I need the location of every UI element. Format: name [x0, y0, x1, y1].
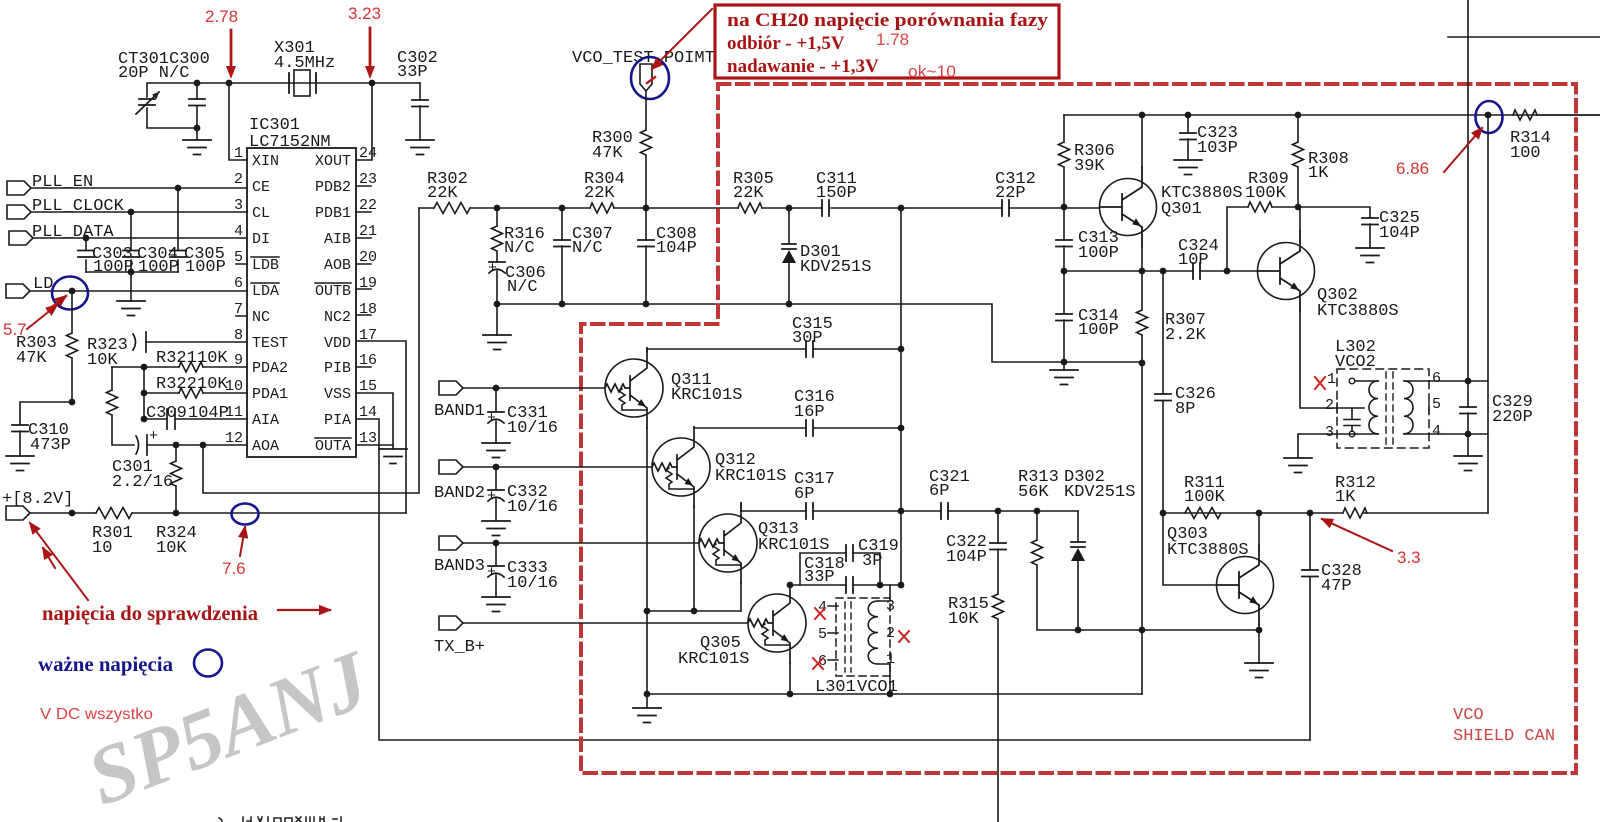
resistor R314	[1510, 110, 1600, 163]
wire Q311 collector to C315	[646, 348, 648, 351]
svg-text:CL: CL	[252, 205, 270, 222]
resistor R311	[1184, 474, 1226, 519]
resistor R323 body	[107, 367, 135, 445]
svg-text:+[8.2V]: +[8.2V]	[2, 490, 73, 509]
wire VCO feedback bus	[900, 208, 902, 585]
svg-text:24: 24	[359, 145, 377, 162]
capacitor C332 polarized	[487, 467, 558, 521]
svg-text:KRC101S: KRC101S	[678, 650, 749, 669]
capacitor C309	[144, 404, 247, 429]
svg-text:KRC101S: KRC101S	[758, 536, 829, 555]
svg-text:7.6: 7.6	[222, 559, 246, 578]
junction node C333 tap	[493, 540, 500, 547]
junction node XIN riser	[226, 80, 233, 87]
junction node R313 top	[1034, 508, 1041, 515]
svg-text:100: 100	[1510, 144, 1541, 163]
svg-text:100P: 100P	[1078, 321, 1119, 340]
junction node C309/AIA	[141, 416, 148, 423]
transistor Q313 KRC101S	[699, 503, 829, 583]
junction node at C300 bottom	[194, 125, 201, 132]
junction node C329 bottom	[1465, 431, 1472, 438]
red arrow from note box to test point	[652, 9, 712, 69]
pin numbers right	[359, 145, 377, 447]
junction node R324 bottom	[173, 510, 180, 517]
capacitor C319 parallel	[800, 537, 899, 585]
svg-text:KDV251S: KDV251S	[1064, 483, 1135, 502]
capacitor C318	[790, 555, 901, 593]
resistor R323	[87, 336, 128, 370]
capacitor C303	[78, 238, 134, 277]
svg-text:KTC3880S: KTC3880S	[1167, 541, 1249, 560]
svg-text:N/C: N/C	[572, 239, 603, 258]
wire Q313 collector to C317	[740, 503, 742, 511]
svg-text:10K: 10K	[197, 375, 228, 394]
transformer L302 VCO2	[1325, 338, 1441, 448]
wire VDD pin17 to supply rail	[356, 341, 406, 513]
svg-text:22K: 22K	[584, 184, 615, 203]
capacitor C313	[1056, 207, 1119, 271]
svg-text:20P N/C: 20P N/C	[118, 64, 189, 83]
capacitor C302	[397, 49, 438, 140]
wire Q302 collector riser	[1299, 207, 1301, 231]
junction nodes emitter row	[1061, 268, 1068, 275]
ground below C302	[406, 140, 434, 155]
capacitor C325	[1298, 207, 1420, 248]
ground at pin13/15	[379, 449, 407, 464]
junction node C316 bus	[898, 425, 905, 432]
junction nodes emitter bus	[644, 608, 651, 615]
svg-text:23: 23	[359, 171, 377, 188]
wire varactor bias column	[1141, 363, 1143, 694]
capacitor C304	[123, 212, 179, 277]
wire BAND1 to Q311 base	[463, 387, 605, 389]
resistor R307	[1137, 271, 1207, 363]
varactor diode D301	[782, 208, 871, 304]
junction node on CE wire	[175, 185, 182, 192]
wire Q305 collector riser	[789, 583, 791, 585]
capacitor C328	[1302, 513, 1362, 740]
svg-text:104P: 104P	[188, 404, 229, 423]
crystal X301	[274, 39, 335, 96]
legend wazne napiecia	[38, 650, 222, 677]
wire Q312 emitter down	[693, 507, 695, 611]
junction node D301 bottom	[786, 301, 793, 308]
svg-text:NC2: NC2	[324, 309, 351, 326]
junction node at C300 top	[194, 80, 201, 87]
wire lower rail to emitter column	[497, 304, 1142, 362]
legend napiecia do sprawdzenia	[42, 601, 330, 625]
red annotation 2.78 with arrow	[205, 7, 238, 79]
wire Q301 emitter riser	[1141, 247, 1143, 271]
junction node R303 bottom on rail	[69, 510, 76, 517]
wire Q302 emitter to L302 pin2	[1300, 311, 1364, 408]
blue circle marker 7.6 node	[232, 504, 259, 525]
red annotation 6.86 with arrow	[1396, 128, 1482, 178]
resistor R316 N/C	[492, 208, 545, 258]
svg-text:2.2/16: 2.2/16	[112, 473, 173, 492]
transistor Q303 KTC3880S	[1167, 525, 1274, 625]
svg-text:3: 3	[1325, 424, 1334, 441]
transistor Q302 KTC3880S	[1258, 231, 1399, 321]
svg-text:PLL_CLOCK: PLL_CLOCK	[32, 197, 125, 216]
svg-text:+: +	[488, 260, 497, 277]
wire Q301 collector riser	[1141, 115, 1143, 167]
svg-text:2: 2	[234, 171, 243, 188]
junction node C317 bus	[898, 508, 905, 515]
svg-text:V DC wszystko: V DC wszystko	[40, 706, 153, 723]
svg-text:100P: 100P	[93, 258, 134, 277]
wire RF output column	[1487, 115, 1489, 513]
svg-text:PDA2: PDA2	[252, 360, 288, 377]
capacitor on TEST line	[133, 332, 247, 352]
svg-text:47K: 47K	[592, 144, 623, 163]
ground below L302 pin3	[1284, 458, 1312, 473]
svg-text:10K: 10K	[156, 539, 187, 558]
red arrow inside LD circle	[48, 296, 66, 310]
capacitor C331 polarized	[487, 388, 558, 443]
svg-text:22: 22	[359, 197, 377, 214]
wire varactor control rail	[419, 207, 1099, 209]
capacitor C311	[816, 170, 857, 216]
connector BAND2	[434, 460, 485, 503]
svg-text:39K: 39K	[1074, 157, 1105, 176]
svg-text:47P: 47P	[1321, 577, 1352, 596]
junction node Q301 base	[1061, 204, 1068, 211]
test point VCO_TEST_POIMT	[572, 49, 715, 91]
capacitor C312	[995, 170, 1036, 216]
junction node Q302 collector	[1295, 204, 1302, 211]
connector LD	[6, 275, 53, 298]
svg-text:104P: 104P	[946, 548, 987, 567]
wire emitter common bus	[647, 610, 741, 612]
svg-text:+: +	[149, 428, 158, 445]
red arrows pointing to +8.2V connector	[30, 523, 88, 600]
junction node R308 top	[1295, 112, 1302, 119]
svg-text:10/16: 10/16	[507, 574, 558, 593]
blue circle marker test point	[631, 57, 669, 99]
pin names right column	[315, 153, 351, 455]
resistor R321	[112, 349, 247, 372]
junction node bias column	[1139, 627, 1146, 634]
svg-text:103P: 103P	[1197, 139, 1238, 158]
svg-text:22P: 22P	[995, 184, 1026, 203]
svg-text:100P: 100P	[185, 258, 226, 277]
capacitor C333 polarized	[487, 543, 558, 597]
svg-text:2: 2	[1325, 397, 1334, 414]
resistor R304	[584, 170, 625, 213]
svg-text:PIB: PIB	[324, 360, 351, 377]
wire LD to pin6 LDA	[30, 290, 247, 292]
capacitor C310	[12, 402, 72, 456]
svg-text:ok~10: ok~10	[908, 62, 956, 81]
red note box	[715, 5, 1059, 81]
svg-text:+: +	[487, 410, 496, 427]
svg-text:1K: 1K	[1308, 164, 1329, 183]
svg-text:22K: 22K	[733, 184, 764, 203]
wire Q313 emitter to common	[740, 583, 742, 611]
junction nodes lower rail	[494, 301, 501, 308]
svg-text:220P: 220P	[1492, 408, 1533, 427]
capacitor C321	[901, 468, 998, 519]
resistor R322	[144, 375, 247, 398]
svg-text:22K: 22K	[427, 184, 458, 203]
resistor R300	[592, 91, 652, 208]
svg-text:473P: 473P	[30, 436, 71, 455]
wire PLL_DATA to pin4 DI	[33, 237, 247, 239]
svg-text:5: 5	[818, 626, 827, 643]
svg-text:VSS: VSS	[324, 386, 351, 403]
svg-text:TEST: TEST	[252, 335, 288, 352]
junction nodes on R32x column	[141, 364, 148, 371]
connector BAND3	[434, 536, 485, 576]
svg-text:KDV251S: KDV251S	[800, 258, 871, 277]
junction nodes on control rail	[494, 205, 501, 212]
svg-text:napięcia do sprawdzenia: napięcia do sprawdzenia	[42, 601, 258, 625]
junction node on DI wire	[83, 235, 90, 242]
svg-text:N/C: N/C	[507, 278, 538, 297]
svg-text:100K: 100K	[1245, 184, 1287, 203]
svg-text:19: 19	[359, 275, 377, 292]
svg-text:3: 3	[886, 598, 895, 615]
junction node Q303 collector	[1256, 510, 1263, 517]
junction node D302 bottom	[1075, 627, 1082, 634]
svg-text:10/16: 10/16	[507, 498, 558, 517]
junction node C332 tap	[493, 464, 500, 471]
svg-text:3P: 3P	[862, 552, 882, 571]
svg-text:VDD: VDD	[324, 335, 351, 352]
junction node C318 bus	[898, 582, 905, 589]
junction node C323 top	[1185, 112, 1192, 119]
resistor R302	[427, 170, 470, 214]
resistor R309	[1227, 170, 1298, 271]
svg-text:BAND1: BAND1	[434, 402, 485, 421]
wire PLL_EN to pin2 CE	[31, 187, 247, 189]
svg-text:ważne napięcia: ważne napięcia	[38, 652, 173, 676]
svg-text:6.86: 6.86	[1396, 159, 1429, 178]
junction node C328 top	[1307, 510, 1314, 517]
varactor diode D302	[1064, 468, 1135, 630]
resistor R308	[1293, 115, 1349, 207]
svg-text:BAND2: BAND2	[434, 484, 485, 503]
ground below C325	[1356, 248, 1384, 263]
svg-text:16P: 16P	[794, 403, 825, 422]
svg-text:SHIELD CAN: SHIELD CAN	[1453, 727, 1555, 746]
junction node C331 tap	[493, 385, 500, 392]
svg-text:VCO2: VCO2	[1335, 353, 1376, 372]
junction node R307 bottom	[1139, 360, 1146, 367]
transformer L301 VCO1	[815, 585, 898, 697]
IC U301 LC7152NM body	[247, 116, 356, 457]
red annotation 3.3 with arrow	[1322, 519, 1421, 567]
capacitor C326	[1155, 271, 1216, 513]
connector PLL_DATA	[9, 223, 114, 245]
svg-text:odbiór - +1,5V: odbiór - +1,5V	[727, 33, 845, 54]
wire OUTA pin13 to ground	[356, 444, 393, 446]
label VCO SHIELD CAN	[1453, 706, 1555, 746]
svg-text:LC7152NM: LC7152NM	[249, 133, 331, 152]
svg-text:56K: 56K	[1018, 483, 1049, 502]
red X marks on L301	[813, 608, 909, 669]
svg-text:1: 1	[1327, 371, 1336, 388]
junction node LD	[69, 288, 76, 295]
resistor R301	[92, 508, 133, 559]
svg-text:PLL_EN: PLL_EN	[32, 173, 93, 192]
blue circle marker 6.86 node	[1476, 101, 1503, 133]
capacitor C322	[946, 511, 1006, 594]
junction node C319 right	[877, 582, 884, 589]
capacitor C306 N/C polarized	[488, 252, 546, 304]
svg-text:AOA: AOA	[252, 438, 279, 455]
svg-text:1: 1	[886, 651, 895, 668]
svg-text:10P: 10P	[1178, 251, 1209, 270]
capacitor C317	[741, 470, 901, 519]
ground symbol on bus	[633, 694, 661, 723]
svg-text:LDA: LDA	[252, 283, 279, 300]
capacitor C323	[1180, 115, 1238, 160]
wire L302 pin4 row	[1429, 433, 1488, 435]
cropped text fragments bottom	[219, 817, 341, 822]
pin5 LDB stub	[236, 264, 247, 316]
wire R32x column	[143, 367, 145, 419]
svg-text:104P: 104P	[656, 239, 697, 258]
svg-text:KTC3880S: KTC3880S	[1317, 302, 1399, 321]
wire top edge cropped lines	[1448, 0, 1600, 381]
connector PLL_EN	[7, 173, 93, 195]
junction node C315 bus	[898, 346, 905, 353]
svg-text:4.5MHz: 4.5MHz	[274, 54, 335, 73]
capacitor C324	[1178, 237, 1219, 279]
ground below C314	[1050, 362, 1078, 385]
svg-text:XIN: XIN	[252, 153, 279, 170]
ground below R316 column	[483, 304, 511, 350]
capacitor C305	[170, 188, 226, 277]
transistor Q301 KTC3880S	[1100, 167, 1243, 247]
svg-text:104P: 104P	[1379, 224, 1420, 243]
junction node collector rail	[1139, 112, 1146, 119]
svg-text:21: 21	[359, 223, 377, 240]
red X mark on L302 pin1	[1315, 377, 1325, 389]
blue circle marker at LD node	[52, 277, 88, 310]
wire cap bus to ground	[130, 272, 132, 301]
svg-text:TX_B+: TX_B+	[434, 638, 485, 657]
svg-text:10K: 10K	[948, 610, 979, 629]
svg-text:2.78: 2.78	[205, 7, 238, 26]
svg-text:3.23: 3.23	[348, 4, 381, 23]
wire VSS pin15 to ground	[356, 393, 393, 449]
svg-text:VCO: VCO	[1453, 706, 1484, 725]
svg-text:5: 5	[1432, 396, 1441, 413]
capacitor C314	[1056, 271, 1119, 362]
IC pin stubs right side	[356, 186, 371, 367]
svg-text:CE: CE	[252, 179, 270, 196]
wire PLL_CLOCK to pin3 CL	[31, 211, 247, 213]
connector +[8.2V]	[2, 490, 73, 520]
wire BAND3 to Q313 base	[463, 542, 699, 544]
wire Q303 row	[1163, 512, 1488, 514]
svg-text:nadawanie - +1,3V: nadawanie - +1,3V	[727, 56, 879, 77]
transistor Q311 KRC101S	[605, 348, 742, 428]
svg-text:PDB1: PDB1	[315, 205, 351, 222]
svg-text:100P: 100P	[1078, 244, 1119, 263]
trimmer capacitor CT301	[118, 50, 210, 114]
junction node XOUT riser	[369, 80, 376, 87]
transistor Q312 KRC101S	[652, 427, 786, 507]
junction node Q305 collector	[787, 582, 794, 589]
ground below C331	[482, 443, 510, 458]
svg-text:OUTA: OUTA	[315, 438, 351, 455]
capacitor C329	[1460, 381, 1533, 434]
junction node cap bus	[128, 269, 135, 276]
pin numbers left	[225, 145, 243, 447]
svg-text:R322: R322	[156, 375, 197, 394]
svg-text:20: 20	[359, 249, 377, 266]
wire top crystal rail	[147, 83, 420, 128]
svg-text:NC: NC	[252, 309, 270, 326]
wire emitter row	[1064, 270, 1257, 272]
svg-text:33P: 33P	[804, 568, 835, 587]
svg-text:AOB: AOB	[324, 257, 351, 274]
connector BAND1	[434, 381, 485, 421]
wire pin1 XIN riser	[229, 83, 247, 160]
red annotation 7.6 with arrow	[222, 527, 246, 578]
svg-text:150P: 150P	[816, 184, 857, 203]
wire PIA pin14 long return	[356, 419, 1310, 740]
VCO shield can dashed border	[581, 84, 1576, 773]
capacitor C316	[694, 388, 901, 436]
connector TX_B+	[434, 616, 485, 657]
junction node R324 top	[173, 442, 180, 449]
svg-text:3.3: 3.3	[1397, 548, 1421, 567]
ground below PLL caps	[117, 301, 145, 316]
wire pin24 XOUT riser	[356, 83, 372, 160]
svg-text:LDB: LDB	[252, 257, 279, 274]
svg-text:33P: 33P	[397, 63, 428, 82]
svg-text:1.78: 1.78	[876, 30, 909, 49]
ground below C310	[6, 456, 34, 471]
wire L302 pin3 to ground	[1298, 434, 1355, 458]
svg-text:BAND3: BAND3	[434, 557, 485, 576]
pin names left column	[251, 153, 288, 455]
junction node on CL wire	[128, 209, 135, 216]
red annotation 5.7 with arrow	[3, 305, 57, 339]
svg-text:4: 4	[1432, 423, 1441, 440]
wire cap bottoms bus	[86, 271, 178, 273]
svg-text:C309: C309	[146, 404, 187, 423]
wire R311 to Q303 base	[1163, 513, 1216, 585]
capacitor C315	[647, 315, 901, 357]
junction node VCO bus top	[898, 205, 905, 212]
resistor R313	[1018, 468, 1078, 630]
svg-text:AIA: AIA	[252, 412, 279, 429]
svg-text:10: 10	[92, 539, 112, 558]
svg-text:1: 1	[234, 145, 243, 162]
svg-text:6P: 6P	[794, 485, 814, 504]
ground below Q303	[1245, 663, 1273, 678]
svg-text:na CH20 napięcie porównania fa: na CH20 napięcie porównania fazy	[727, 10, 1049, 31]
wire BAND2 to Q312 base	[463, 466, 652, 468]
junction node AOA riser	[200, 442, 207, 449]
junction node C322 top	[995, 508, 1002, 515]
wire Q311 emitter down	[646, 428, 648, 694]
ground below C332	[482, 521, 510, 536]
resistor R303	[16, 291, 78, 402]
wire to R313/D302	[998, 510, 1078, 512]
svg-text:8P: 8P	[1175, 400, 1195, 419]
capacitor C307 N/C	[554, 208, 613, 304]
svg-text:N/C: N/C	[504, 239, 535, 258]
capacitor C300	[189, 99, 205, 106]
junction node C314 bottom	[1061, 359, 1068, 366]
